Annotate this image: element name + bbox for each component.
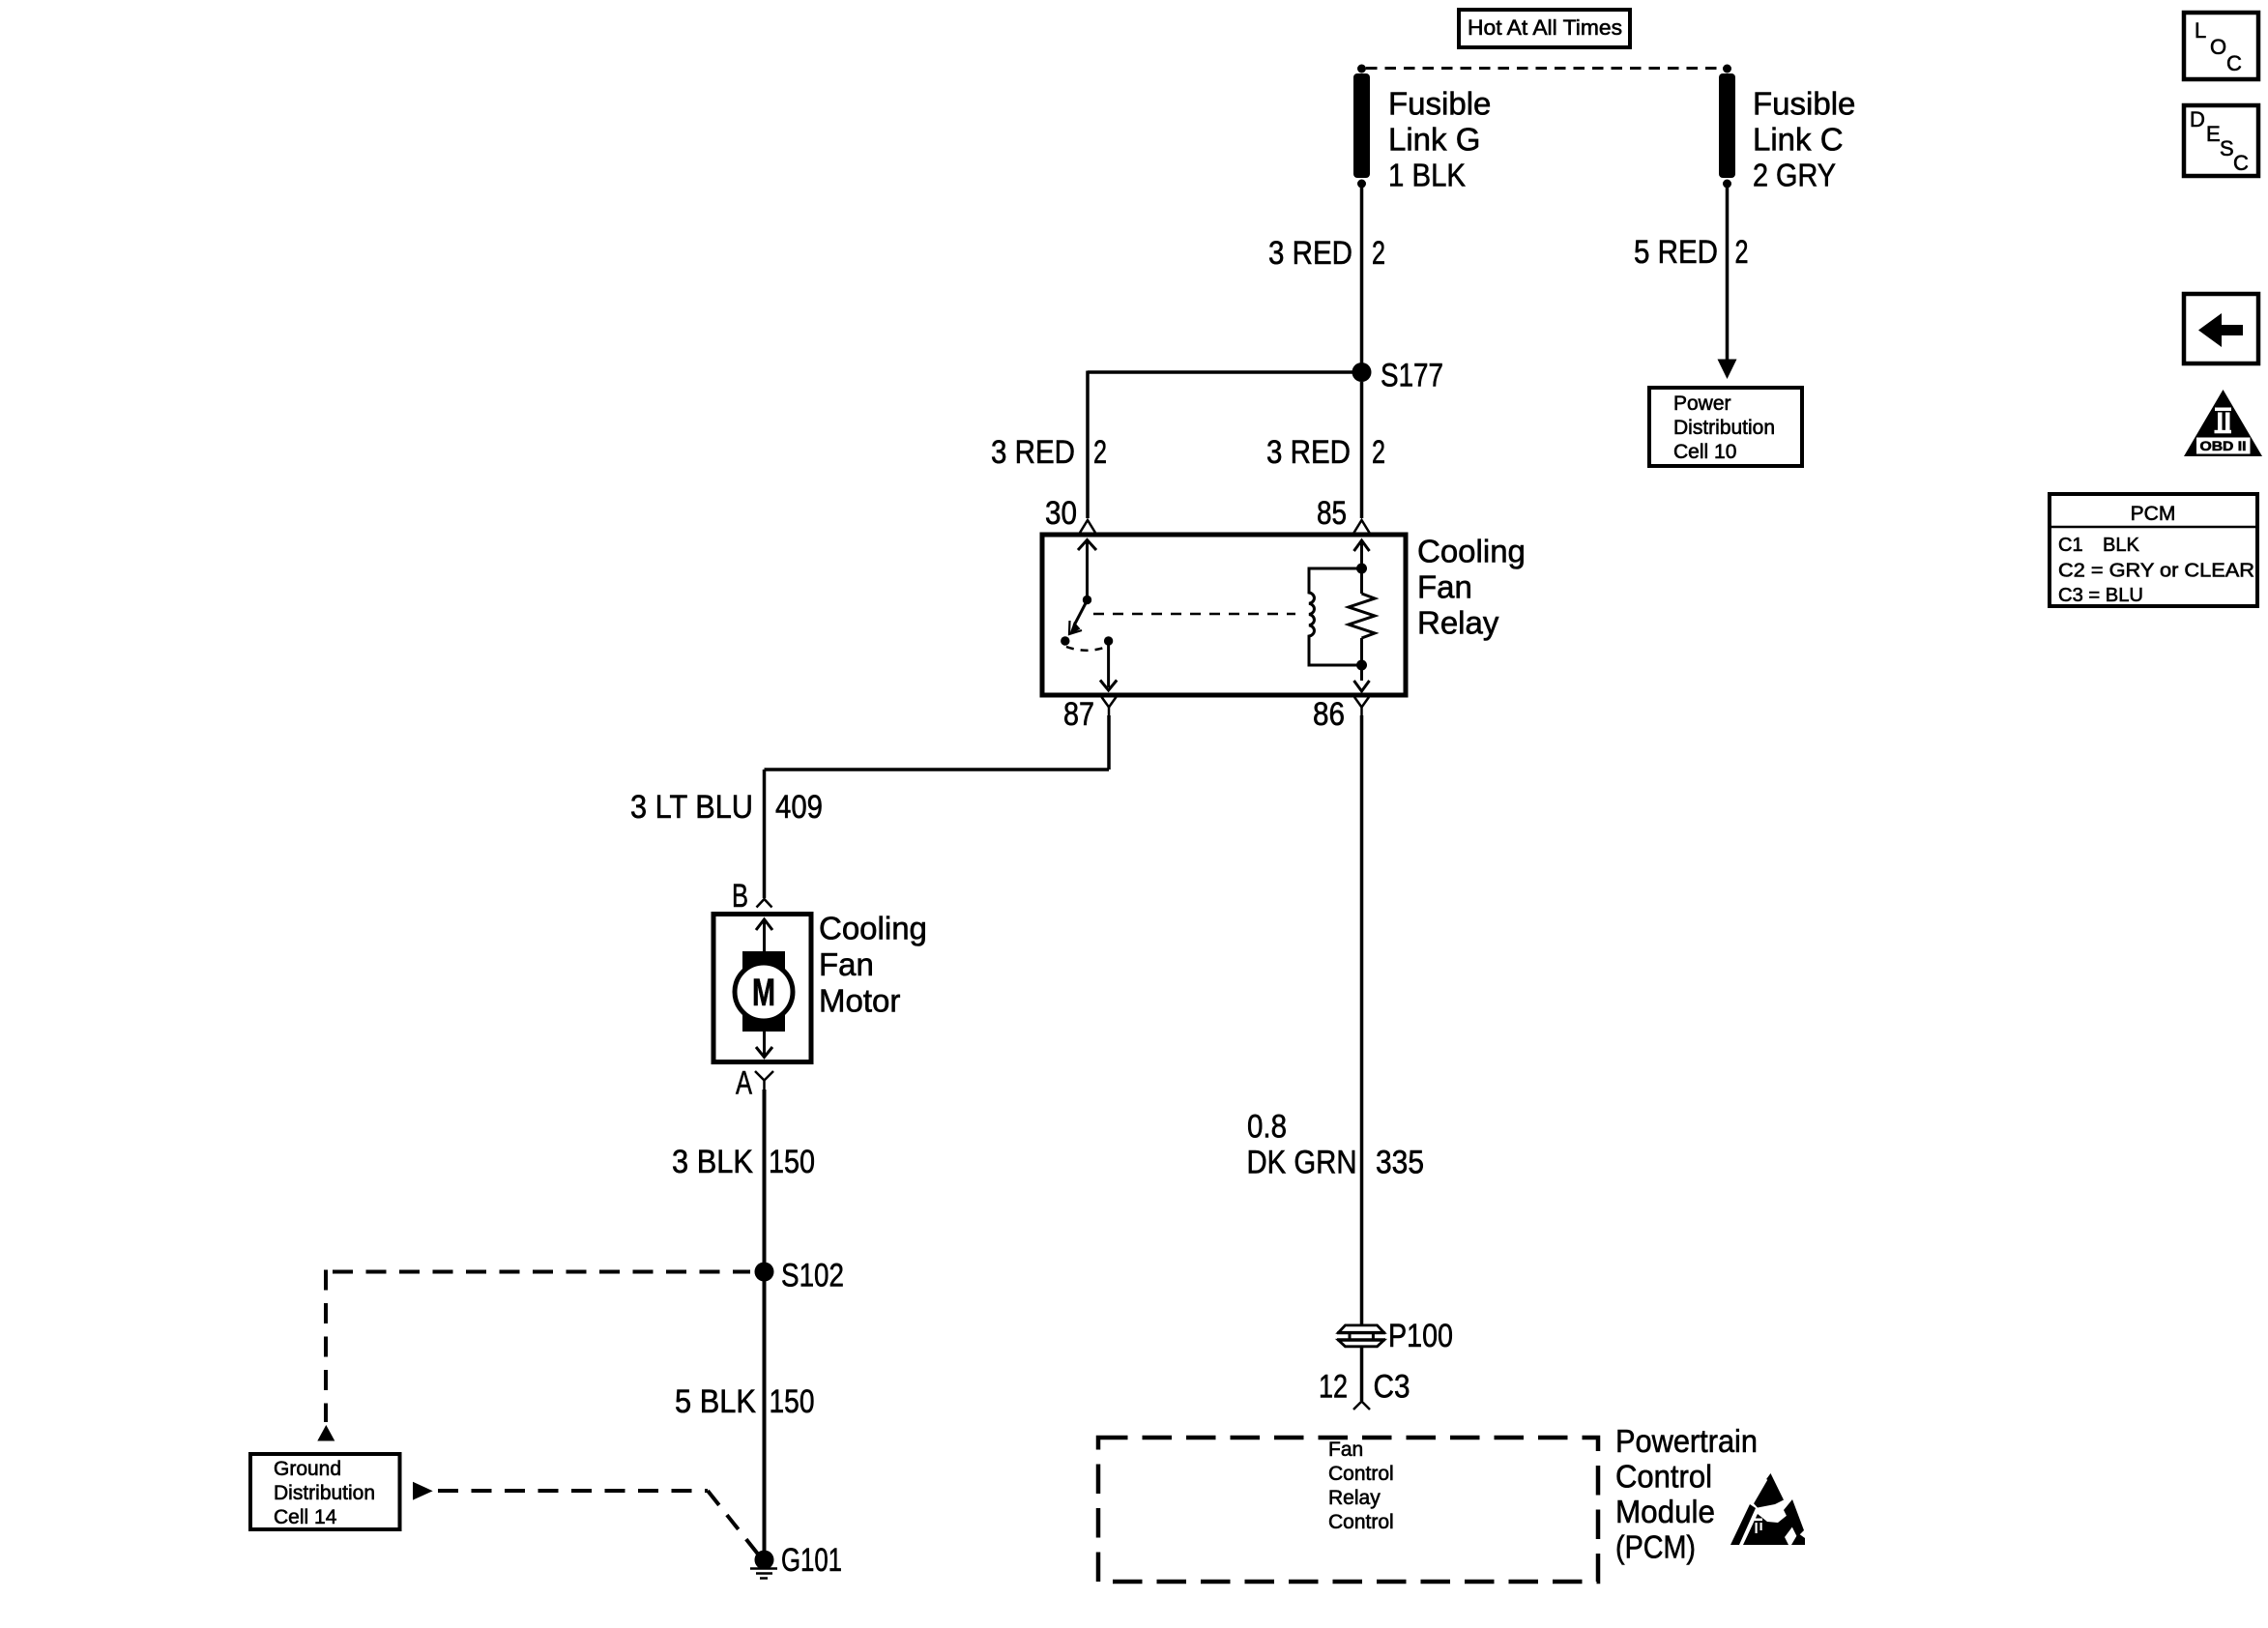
label: Cooling Fan Motor (819, 911, 927, 1019)
svg-text:P100: P100 (1388, 1318, 1453, 1354)
node dot at fusible link G top (1357, 65, 1366, 73)
svg-text:2 GRY: 2 GRY (1753, 158, 1836, 193)
svg-text:E: E (2206, 122, 2221, 146)
svg-text:Cell 14: Cell 14 (274, 1506, 337, 1528)
svg-text:C1: C1 (2058, 535, 2083, 556)
motor inner arrow top (756, 919, 772, 951)
PCM dashed module box (1098, 1438, 1598, 1582)
svg-text:409: 409 (775, 789, 823, 826)
svg-text:Fan: Fan (819, 946, 874, 982)
wire: dashed hot feed bus (1366, 67, 1724, 70)
svg-text:L: L (2195, 18, 2206, 43)
svg-text:3 RED: 3 RED (1268, 235, 1352, 272)
dashed wire: ground distribution to G101 (438, 1491, 760, 1556)
label box: Hot At All Times (1459, 10, 1630, 47)
svg-text:12: 12 (1319, 1369, 1348, 1406)
svg-text:Relay: Relay (1417, 605, 1499, 641)
relay switch movable arm (1069, 600, 1088, 635)
svg-text:D: D (2190, 107, 2205, 131)
label: 3 RED 2 (top) (1268, 235, 1385, 272)
svg-text:0.8: 0.8 (1247, 1109, 1287, 1146)
svg-text:Distribution: Distribution (1673, 417, 1775, 439)
pin 87 connector caret (1102, 697, 1117, 715)
coil node dot top (1356, 564, 1367, 574)
svg-text:Link G: Link G (1388, 122, 1480, 158)
svg-text:2: 2 (1093, 434, 1107, 471)
wire: 5 RED 2 from fusible link C down (1726, 188, 1730, 361)
relay pin 86 inner arrow (1354, 638, 1370, 691)
svg-text:C: C (2233, 151, 2249, 175)
svg-text:1 BLK: 1 BLK (1388, 158, 1466, 193)
dashed mechanical link from switch to coil (1093, 613, 1295, 616)
svg-text:335: 335 (1376, 1145, 1424, 1181)
ground G101 (750, 1551, 777, 1579)
svg-text:Control: Control (1328, 1511, 1394, 1533)
svg-text:G101: G101 (781, 1542, 842, 1579)
dashed travel arc between contacts (1066, 647, 1107, 651)
svg-text:3 BLK: 3 BLK (672, 1144, 753, 1180)
svg-text:150: 150 (770, 1383, 815, 1420)
svg-text:O: O (2210, 35, 2226, 59)
svg-text:Link C: Link C (1753, 122, 1844, 158)
svg-text:Cell 10: Cell 10 (1673, 441, 1736, 463)
label: 0.8 DK GRN 335 (1247, 1109, 1425, 1181)
svg-text:2: 2 (1372, 434, 1385, 471)
svg-text:BLK: BLK (2103, 535, 2139, 556)
pin 85 connector caret (1354, 520, 1370, 533)
legend box DESC (2184, 105, 2258, 176)
svg-text:PCM: PCM (2131, 503, 2176, 525)
coil node dot bottom (1356, 660, 1367, 671)
svg-text:C: C (2226, 51, 2242, 75)
label box: Power Distribution Cell 10 (1649, 388, 1802, 466)
svg-text:Control: Control (1615, 1459, 1712, 1495)
svg-text:C3 = BLU: C3 = BLU (2058, 585, 2143, 606)
svg-text:S102: S102 (781, 1258, 844, 1294)
label: Powertrain Control Module (PCM) (1615, 1423, 1758, 1565)
label: 5 BLK 150 (675, 1383, 815, 1420)
svg-text:30: 30 (1045, 495, 1077, 532)
relay switch common arrow (pin 30 side) (1078, 540, 1096, 605)
pin 30 connector caret (1080, 520, 1095, 533)
svg-text:Cooling: Cooling (1417, 534, 1526, 569)
svg-text:5 RED: 5 RED (1634, 234, 1718, 271)
label: 3 RED 2 (left branch) (991, 434, 1107, 471)
svg-text:OBD II: OBD II (2200, 438, 2247, 453)
svg-text:Fan: Fan (1417, 569, 1472, 605)
wire: pin 86 down to P100 (1360, 715, 1364, 1324)
svg-text:C2 = GRY or CLEAR: C2 = GRY or CLEAR (2058, 561, 2254, 582)
svg-text:3 LT BLU: 3 LT BLU (630, 789, 753, 826)
svg-text:Motor: Motor (819, 983, 900, 1019)
motor commutator block (742, 951, 785, 1032)
motor inner arrow bottom (756, 1032, 772, 1058)
label: Fusible Link C 2 GRY (1753, 86, 1855, 193)
svg-text:Fusible: Fusible (1753, 86, 1855, 122)
pin A connector caret (755, 1071, 773, 1090)
svg-text:3 RED: 3 RED (991, 434, 1075, 471)
svg-text:150: 150 (769, 1144, 815, 1180)
label: Fusible Link G 1 BLK (1388, 86, 1491, 193)
label: Cooling Fan Relay (1417, 534, 1526, 641)
wire: 3 RED 2 from fusible link G to S177 (1360, 188, 1364, 372)
legend table: PCM connectors (2050, 494, 2257, 606)
pin 12 C3 connector caret (1353, 1402, 1370, 1410)
splice S177 (1352, 363, 1372, 382)
relay switch contact dot (output) (1104, 636, 1113, 645)
OBD II triangle symbol (2184, 390, 2262, 456)
pin 86 connector caret (1354, 697, 1369, 715)
relay coil resistor (zigzag) (1349, 594, 1375, 638)
svg-text:87: 87 (1063, 696, 1094, 733)
svg-text:3 RED: 3 RED (1266, 434, 1351, 471)
relay U: Cooling Fan Relay box (1042, 535, 1406, 695)
relay output arrow to pin 87 (1100, 641, 1117, 690)
motor M1: Cooling Fan Motor box (713, 915, 811, 1062)
svg-text:S177: S177 (1381, 358, 1443, 394)
svg-text:Fusible: Fusible (1388, 86, 1491, 122)
svg-text:86: 86 (1313, 696, 1345, 733)
wire: pin 87 down and left to motor (765, 715, 1110, 898)
wire: horizontal from S177 to left branch (1088, 370, 1362, 374)
svg-text:Fan: Fan (1328, 1439, 1363, 1461)
svg-text:B: B (732, 878, 748, 915)
wire: 5 BLK 150 from S102 to G101 (763, 1272, 767, 1555)
svg-text:Module: Module (1615, 1494, 1715, 1529)
relay pin 85 inner arrow (1354, 540, 1370, 594)
relay coil (inductor) (1309, 568, 1362, 665)
svg-text:M: M (752, 972, 775, 1014)
svg-text:Hot At All Times: Hot At All Times (1468, 15, 1622, 40)
wire: P100 to PCM pin 12 (1360, 1348, 1364, 1402)
svg-text:5 BLK: 5 BLK (675, 1383, 756, 1420)
dashed wire: S102 to ground distribution (326, 1270, 750, 1423)
svg-text:2: 2 (1372, 235, 1385, 272)
wire: S177 down to relay pin 85 (1360, 382, 1364, 518)
wire: 3 BLK 150 from motor A to S102 (763, 1090, 767, 1271)
svg-text:Powertrain: Powertrain (1615, 1423, 1758, 1459)
ESD sensitive device triangle symbol (1730, 1473, 1805, 1545)
svg-text:Cooling: Cooling (819, 911, 927, 946)
svg-text:A: A (736, 1065, 752, 1102)
motor symbol circle with M (735, 963, 793, 1021)
pass-through connector P100 (1337, 1325, 1385, 1347)
splice S102 (755, 1263, 774, 1282)
svg-text:Relay: Relay (1328, 1487, 1381, 1509)
svg-text:S: S (2220, 136, 2234, 160)
arrowhead into Power Distribution (1718, 360, 1737, 380)
relay switch contact dot (NO left) (1061, 636, 1069, 645)
fusible link G (fuse bar) (1353, 73, 1370, 189)
svg-text:Control: Control (1328, 1463, 1394, 1485)
svg-text:Distribution: Distribution (274, 1482, 375, 1504)
label: 12 C3 (1319, 1369, 1410, 1406)
label box: Ground Distribution Cell 14 (250, 1454, 400, 1529)
legend box LOC (2184, 13, 2258, 79)
label: 3 BLK 150 (672, 1144, 815, 1180)
svg-text:DK GRN: DK GRN (1247, 1145, 1357, 1181)
node dot at fusible link C top (1723, 65, 1731, 73)
fusible link C (fuse bar) (1719, 73, 1735, 189)
legend box: back arrow (2184, 294, 2258, 363)
pin B connector caret (757, 899, 772, 908)
svg-text:(PCM): (PCM) (1615, 1529, 1696, 1565)
svg-text:C3: C3 (1374, 1369, 1410, 1406)
label: 3 RED 2 (right, above pin 85) (1266, 434, 1385, 471)
arrowhead into ground distribution box (317, 1425, 334, 1441)
svg-text:Ground: Ground (274, 1458, 341, 1480)
arrow out of ground distribution box (413, 1482, 433, 1500)
svg-text:2: 2 (1735, 234, 1749, 271)
svg-text:85: 85 (1317, 495, 1347, 532)
svg-text:Power: Power (1673, 392, 1731, 415)
wire: left branch down to relay pin 30 (1086, 371, 1090, 519)
label: Fan Control Relay Control (1328, 1439, 1394, 1533)
label: 5 RED 2 (1634, 234, 1749, 271)
label: 3 LT BLU 409 (630, 789, 823, 826)
